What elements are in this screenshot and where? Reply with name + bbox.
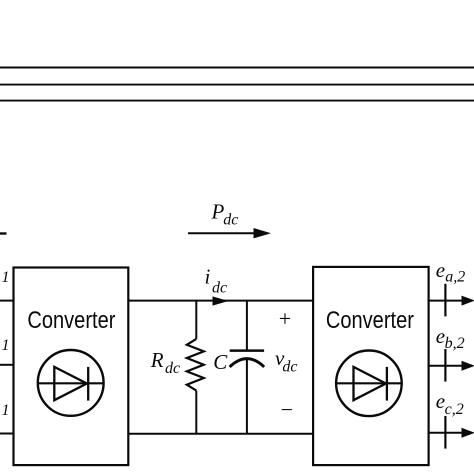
svg-text:+: + [279,306,291,331]
node tick output a [444,284,446,317]
svg-text:b,2: b,2 [445,335,465,352]
svg-text:dc: dc [165,360,180,377]
svg-text:1: 1 [2,337,10,354]
wire Rdc branch bottom [195,391,197,434]
converter U2 box [313,267,429,465]
converter U1 box [14,268,129,466]
arrowhead output b [462,361,474,371]
wire input phase c [0,433,15,435]
converter U1 diode circle [38,350,104,416]
wire Ps arrow stub (cut off at left edge) [0,232,7,234]
svg-text:Converter: Converter [326,307,414,334]
wire input phase b [0,364,15,366]
svg-text:a,2: a,2 [445,269,465,286]
wire output phase c [429,432,463,434]
converter U1 diode anode/cathode line [38,382,104,384]
resistor Rdc zigzag [187,339,204,391]
wire dc link bottom [128,433,313,435]
svg-text:Converter: Converter [27,307,115,334]
wire bus line 3 [0,100,474,102]
svg-text:e: e [436,258,445,282]
svg-text:1: 1 [2,269,10,286]
converter U2 diode cathode bar [386,367,388,401]
wire input phase a [0,300,15,302]
svg-text:c,2: c,2 [445,401,464,418]
svg-text:i: i [205,265,211,289]
converter U2 diode triangle [354,367,386,400]
node tick output c [444,416,446,449]
node tick output b [444,349,446,382]
svg-text:−: − [281,397,293,422]
arrowhead output a [462,296,474,306]
wire C branch bottom [246,359,248,433]
wire Rdc branch top [195,301,197,339]
svg-text:dc: dc [282,359,297,376]
capacitor C top plate [230,349,264,352]
wire Pdc arrow line [188,232,256,234]
converter U1 diode cathode bar [87,367,89,401]
wire bus line 1 [0,67,474,69]
svg-text:1: 1 [2,402,10,419]
wire output phase b [429,365,463,367]
converter U2 diode circle [336,351,402,417]
converter U1 diode triangle [54,367,87,400]
wire dc link top [128,300,313,302]
arrowhead Pdc [254,228,272,238]
wire bus line 2 [0,84,474,86]
arrowhead idc [213,296,229,305]
converter U2 diode anode/cathode line [336,382,401,384]
svg-text:dc: dc [212,279,227,296]
wire output phase a [429,300,463,302]
wire C branch top [246,301,248,351]
svg-text:R: R [150,348,164,372]
arrowhead output c [462,428,474,438]
capacitor C curved bottom plate [230,359,265,367]
svg-text:C: C [213,350,228,374]
svg-text:dc: dc [223,211,238,228]
